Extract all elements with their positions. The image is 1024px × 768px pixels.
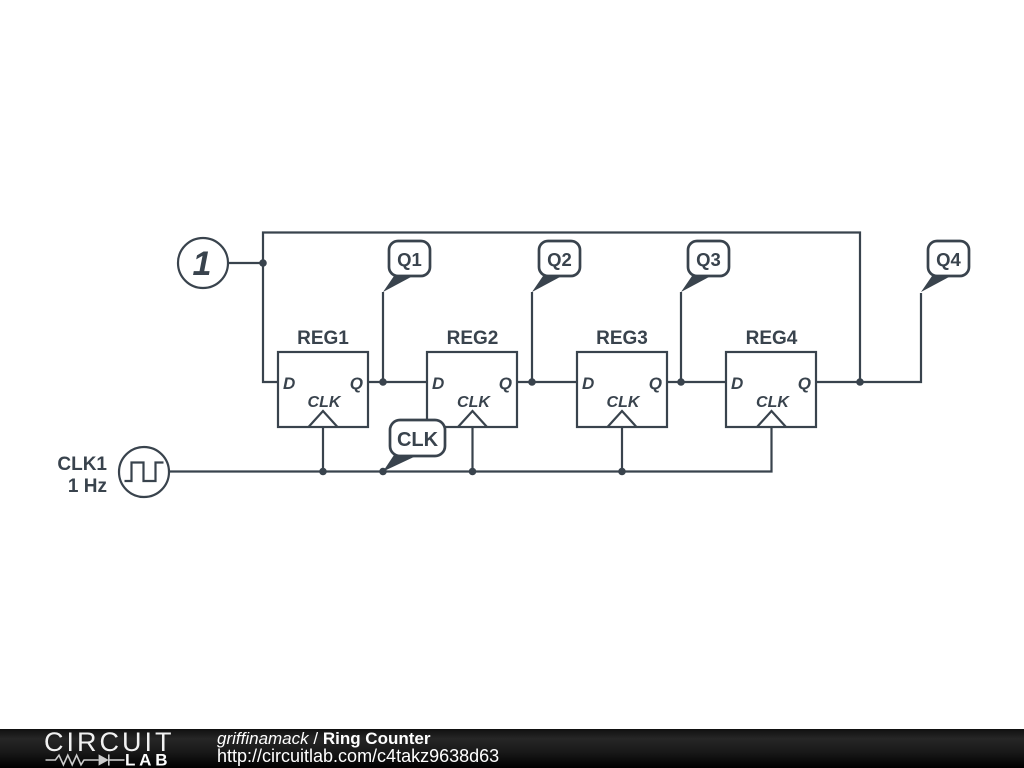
CircuitLab logo — [44, 727, 175, 768]
wire: clock bus from CLK1 to REG4 clock — [169, 427, 772, 472]
flag CLK — [383, 420, 445, 472]
wire: REG3 Q to REG4 D — [667, 381, 726, 383]
flag Q1 — [383, 241, 430, 292]
wire: REG1 CLK stem — [322, 427, 324, 472]
wire: Q3 flag stem — [680, 292, 682, 382]
junction: REG3 Q node — [677, 378, 685, 386]
svg-text:CLK1: CLK1 — [57, 454, 107, 475]
wire: Q1 flag stem — [382, 292, 384, 382]
D flip-flop REG1 — [278, 328, 368, 427]
svg-text:CLK: CLK — [397, 429, 439, 451]
D flip-flop REG4 — [726, 328, 816, 427]
flag Q4 — [921, 241, 969, 292]
svg-text:http://circuitlab.com/c4takz96: http://circuitlab.com/c4takz9638d63 — [217, 746, 499, 766]
svg-text:D: D — [731, 374, 743, 393]
node 1 voltage source — [178, 238, 228, 288]
svg-text:D: D — [432, 374, 444, 393]
svg-text:D: D — [582, 374, 594, 393]
svg-text:Q2: Q2 — [547, 249, 572, 270]
clock source CLK1 1 Hz — [57, 447, 169, 497]
svg-text:CLK: CLK — [308, 394, 342, 411]
junction: REG1 Q node — [379, 378, 387, 386]
flag Q3 — [681, 241, 729, 292]
svg-text:CLK: CLK — [756, 394, 790, 411]
svg-text:Q4: Q4 — [936, 249, 961, 270]
junction: clock bus at REG2 — [469, 468, 477, 476]
svg-text:Q3: Q3 — [696, 249, 721, 270]
svg-text:REG1: REG1 — [297, 328, 349, 349]
svg-text:Q: Q — [499, 374, 512, 393]
wire: REG2 Q to REG3 D — [517, 381, 577, 383]
junction: clock bus at CLK flag — [379, 468, 387, 476]
wire: node 1 source to junction — [228, 262, 263, 264]
svg-text:1: 1 — [193, 245, 212, 283]
wire: Q2 flag stem — [531, 292, 533, 382]
footer title text — [217, 729, 499, 766]
svg-text:1 Hz: 1 Hz — [68, 476, 107, 497]
D flip-flop REG3 — [577, 328, 667, 427]
junction: node 1 / feedback wire — [259, 259, 267, 267]
D flip-flop REG2 — [427, 328, 517, 427]
wire: REG4 Q to Q4 flag riser — [816, 293, 921, 382]
svg-text:Q: Q — [649, 374, 662, 393]
svg-text:CLK: CLK — [457, 394, 491, 411]
svg-text:Q: Q — [798, 374, 811, 393]
junction: clock bus at REG3 — [618, 468, 626, 476]
flag Q2 — [532, 241, 580, 292]
svg-text:D: D — [283, 374, 295, 393]
junction: REG4 Q / feedback — [856, 378, 864, 386]
junction: clock bus at REG1 — [319, 468, 327, 476]
svg-text:LAB: LAB — [125, 751, 171, 768]
svg-text:CLK: CLK — [607, 394, 641, 411]
wire: REG2 CLK stem — [471, 427, 473, 472]
svg-text:REG3: REG3 — [596, 328, 648, 349]
wire: feedback net (node1 down-left, top run, right drop to REG4 Q) — [263, 233, 860, 383]
wire: REG1 Q to REG2 D — [368, 381, 427, 383]
footer bar — [0, 729, 1024, 768]
junction: REG2 Q node — [528, 378, 536, 386]
svg-text:REG2: REG2 — [447, 328, 499, 349]
wire: REG3 CLK stem — [621, 427, 623, 472]
svg-text:Q1: Q1 — [397, 249, 422, 270]
svg-text:REG4: REG4 — [746, 328, 798, 349]
svg-text:Q: Q — [350, 374, 363, 393]
